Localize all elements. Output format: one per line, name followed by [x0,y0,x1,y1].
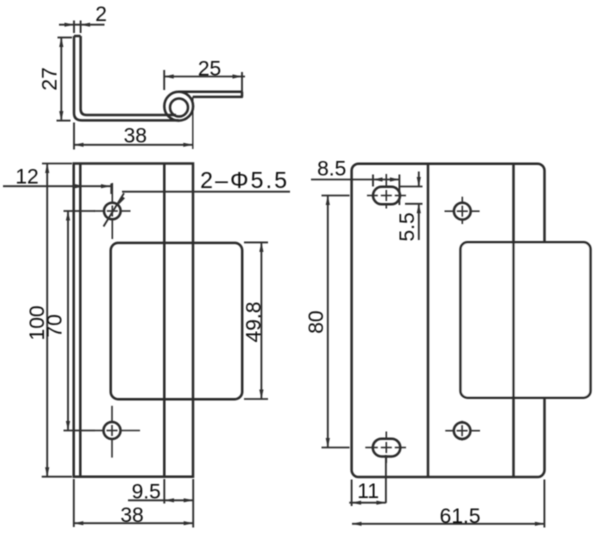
profile view: bottom inner corner arc [81,109,87,115]
profile view: curl outer circle [164,92,193,121]
front view: top hole [104,203,121,220]
dimension 27: bottom arrow [59,111,63,121]
dimension 5.5: top arrow [417,177,421,187]
dimension 12: hole centerline extension [110,184,112,195]
profile view: curl inner circle [170,99,188,117]
dimension 38 profile: right arrow [183,143,193,147]
dimension 8.5: left extension line [372,175,374,187]
profile view: bottom outer corner arc [74,113,82,120]
front view: strike box [111,243,243,399]
back view: fold line [427,164,430,477]
front view: fold edge line [79,164,82,477]
dimension 2: left extension line [73,21,75,34]
dimension 25: right arrow [233,74,243,78]
back view: bottom right hole [454,422,471,439]
dimension 49.8: bottom arrow [259,390,263,400]
profile view: tab bottom edge [193,96,242,99]
dimension 25: left arrow [164,74,174,78]
front view: top hole crosshair [94,210,104,212]
dimension 9.5: right arrow [184,498,194,502]
svg-text:8.5: 8.5 [317,157,346,180]
back view: top slot [373,187,400,205]
dimension 11: left extension line [351,480,353,507]
dimension 38 front: dimension line [74,522,193,524]
dimension 8.5: right extension line [398,175,400,206]
dimension 61.5: right extension line [543,480,545,528]
dimension 11: left arrow [352,501,362,505]
dimension 9.5: left arrow [165,498,175,502]
dimension 2: right arrow [81,23,91,27]
dimension 80: dimension line [327,196,329,448]
dimension 8.5: dimension line [311,179,399,181]
svg-text:2: 2 [95,3,107,26]
front view: bottom hole crosshair [95,430,104,432]
profile view: bottom leg inner edge [87,114,177,117]
dimension 25: right extension line [241,72,243,98]
svg-text:9.5: 9.5 [132,480,161,503]
dimension 27: dimension line [60,38,62,120]
front view: curl fold line [163,164,166,477]
svg-text:11: 11 [357,480,379,503]
dimension 25: dimension line [164,76,245,78]
svg-text:12: 12 [15,166,38,189]
leader 2-Φ5.5: horizontal line [122,191,290,193]
dimension 38 front: right extension line [192,479,194,528]
dimension 2: dimension line [59,24,105,26]
svg-text:61.5: 61.5 [440,505,481,528]
dimension 27: top extension tick [58,37,73,39]
dimension 80: bottom extension tick [322,447,350,449]
svg-text:38: 38 [120,504,143,527]
profile view: tab end edge [241,92,244,97]
dimension 38 front: left arrow [74,521,84,525]
profile view: curl right tangent line [192,97,194,149]
back view: strike box [461,242,591,397]
dimension 2: right extension line [80,21,82,34]
dimension 80: top extension tick [322,195,350,197]
leader 2-Φ5.5: arrow [118,196,125,205]
dimension 38 profile: dimension line [74,144,193,146]
dimension 80: bottom arrow [326,438,330,448]
dimension 49.8: top extension tick [244,241,268,243]
front view: bottom hole [104,422,121,439]
dimension 61.5: dimension line [352,523,544,525]
dimension 70: bottom arrow [66,421,70,431]
svg-text:2–Φ5.5: 2–Φ5.5 [200,167,289,193]
dimension 5.5: lower dimension line [418,204,420,240]
dimension 27: top arrow [59,38,63,48]
svg-text:5.5: 5.5 [396,212,419,241]
dimension 25: left extension line [163,70,165,90]
dimension 100: top extension tick [42,163,72,165]
profile view: leg top edge [74,35,81,38]
back view: curl tangent line [512,164,515,477]
dimension 49.8: dimension line [260,242,262,399]
dimension 70: dimension line [67,211,69,431]
dimension 5.5: bottom extension tick [405,203,423,205]
dimension 100: top arrow [45,164,49,174]
dimension 27: bottom extension tick [57,120,71,122]
dimension 70: top arrow [66,211,70,221]
dimension 70: top extension tick [64,210,96,212]
dimension 2: left arrow [65,23,75,27]
dimension 11: dimension line [349,502,386,504]
dimension 100: bottom extension tick [42,476,72,478]
profile view: vertical leg inner edge [79,36,82,109]
front view: plate outline [74,164,193,477]
dimension 61.5: left arrow [352,522,362,526]
dimension 5.5: bottom arrow [417,204,421,214]
dimension 8.5: right arrow [390,177,400,181]
svg-text:25: 25 [198,58,221,81]
dimension 12: dimension line [3,185,111,187]
svg-text:80: 80 [305,310,328,333]
dimension 38 profile: left arrow [74,143,84,147]
leader 2-Φ5.5: slash through hole [104,193,125,226]
dimension 38 front: left extension line [73,479,75,527]
dimension 11: slot centerline extension [385,455,387,503]
dimension 5.5: upper dimension line [418,172,420,187]
dimension 38 front: right arrow [184,521,194,525]
dimension 11: right arrow [376,501,386,505]
svg-text:38: 38 [124,124,147,147]
dimension 38 profile: left extension line [73,123,75,150]
back view: top right hole crosshair [445,210,454,212]
dimension 9.5: left extension line [163,479,165,504]
svg-text:27: 27 [38,67,61,90]
back view: bottom slot [373,439,401,457]
dimension 100: dimension line [46,164,48,477]
back view: top right hole [454,203,471,220]
dimension 49.8: bottom extension tick [244,398,268,400]
dimension 12: inner arrow [75,184,85,188]
profile view: tab top edge [179,90,242,93]
svg-text:49.8: 49.8 [242,302,265,343]
dimension 49.8: top arrow [259,242,263,252]
back view: bottom right hole crosshair [445,430,453,432]
dimension 100: bottom arrow [45,467,49,477]
profile view: vertical leg outer edge [73,36,76,113]
back view: bottom slot crosshair [365,447,378,449]
svg-text:70: 70 [44,314,67,337]
back view: plate outline [352,164,545,477]
dimension 70: bottom extension tick [64,430,96,432]
back view: top slot crosshair [367,195,378,197]
dimension 61.5: right arrow [535,522,545,526]
dimension 9.5: dimension line [128,499,193,501]
dimension 5.5: top extension tick [400,186,423,188]
dimension 80: top arrow [326,196,330,206]
dimension 8.5: left arrow [373,177,383,181]
profile view: bottom leg outer edge [82,119,179,122]
dimension 12: outer arrow [101,184,111,188]
